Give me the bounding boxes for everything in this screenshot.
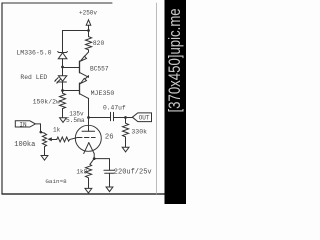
svg-text:[370x450]upic.me: [370x450]upic.me: [167, 8, 185, 112]
ground under pot: [41, 156, 48, 161]
transistor BC557: [80, 52, 89, 77]
wire BC557 base: [63, 67, 80, 69]
ground under 330k: [122, 147, 129, 152]
svg-text:IN: IN: [19, 121, 27, 128]
svg-text:26: 26: [105, 133, 114, 141]
wire BC557 collector to MJE350 emitter: [88, 76, 90, 77]
transistor MJE350: [80, 76, 89, 99]
wire LED to 150k junction: [62, 82, 64, 91]
net OUT tag: [132, 113, 151, 122]
resistor 820: [86, 31, 92, 53]
wire cap to OUT node: [114, 117, 133, 119]
svg-text:BC557: BC557: [90, 66, 109, 73]
tube plate: [82, 118, 95, 132]
zener LM336-5.0: [58, 52, 68, 67]
tube filament: [84, 143, 94, 154]
junction pot top: [40, 131, 43, 134]
resistor 330k: [123, 118, 129, 147]
junction +250v rail: [87, 29, 90, 32]
border frame bottom: [2, 193, 165, 195]
border frame left: [1, 3, 3, 194]
svg-text:220uf/25v: 220uf/25v: [114, 169, 152, 177]
ground under 1k8: [85, 188, 92, 193]
ground under 150k: [60, 118, 67, 123]
resistor 1k8: [86, 159, 95, 189]
net IN tag: [15, 121, 35, 129]
svg-text:820: 820: [93, 40, 105, 47]
tube grid: [77, 137, 95, 139]
capacitor 0.47uf: [111, 112, 114, 120]
svg-text:LM336-5.0: LM336-5.0: [16, 50, 51, 57]
svg-text:OUT: OUT: [139, 115, 150, 122]
potentiometer 100ka: [42, 133, 56, 155]
junction OUT node: [124, 116, 127, 119]
junction cathode node: [93, 157, 96, 160]
border frame right: [156, 3, 158, 194]
wire plate node to coupling cap: [89, 117, 111, 119]
LED D1 red: [54, 76, 67, 84]
tube 26 envelope: [75, 125, 101, 151]
svg-text:100ka: 100ka: [14, 141, 35, 149]
svg-text:Gain≈8: Gain≈8: [45, 178, 67, 185]
junction LED / MJE350 base: [61, 89, 64, 92]
ground under 220uf: [106, 187, 113, 192]
svg-text:Red LED: Red LED: [20, 74, 47, 81]
resistor 150k/2w: [60, 91, 66, 118]
junction plate node: [87, 116, 90, 119]
wire cathode lead: [93, 153, 95, 158]
border frame top: [2, 2, 112, 4]
svg-text:MJE350: MJE350: [91, 90, 115, 97]
capacitor 220uf/25v: [104, 170, 115, 187]
wire rail to left chain: [63, 30, 89, 32]
svg-text:1k: 1k: [53, 127, 61, 134]
wire MJE350 collector to plate node: [88, 98, 90, 117]
wire zener to LED: [62, 67, 64, 76]
junction zener / BC557 base: [61, 66, 64, 69]
resistor 1k: [57, 137, 77, 142]
svg-text:0.47uf: 0.47uf: [103, 105, 126, 112]
watermark band: [165, 0, 187, 204]
power +250v arrow: [86, 20, 91, 31]
svg-text:1k8: 1k8: [76, 168, 87, 175]
svg-text:+250v: +250v: [79, 9, 97, 16]
svg-text:150k/2w: 150k/2w: [33, 98, 60, 105]
wire cathode node to bypass cap: [94, 159, 109, 171]
svg-text:330k: 330k: [131, 129, 147, 136]
wire MJE350 base: [63, 90, 80, 92]
svg-text:5.5ma: 5.5ma: [66, 117, 85, 124]
wire left chain down: [62, 31, 64, 53]
wire IN to pot: [35, 124, 44, 133]
